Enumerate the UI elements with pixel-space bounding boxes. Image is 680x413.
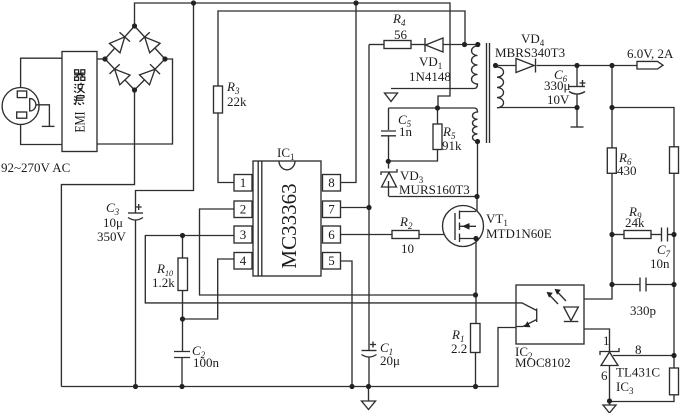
svg-text:350V: 350V bbox=[97, 229, 127, 244]
svg-text:24k: 24k bbox=[625, 215, 645, 230]
svg-text:4: 4 bbox=[240, 253, 247, 268]
svg-text:6.0V, 2A: 6.0V, 2A bbox=[627, 46, 674, 61]
svg-text:MTD1N60E: MTD1N60E bbox=[486, 226, 552, 241]
svg-text:3: 3 bbox=[240, 227, 247, 242]
svg-text:IC3: IC3 bbox=[616, 379, 634, 396]
svg-text:R4: R4 bbox=[392, 11, 406, 28]
svg-text:EMI: EMI bbox=[73, 112, 89, 133]
svg-text:100n: 100n bbox=[193, 355, 220, 370]
svg-text:7: 7 bbox=[328, 202, 335, 217]
svg-text:IC1: IC1 bbox=[277, 145, 295, 162]
svg-text:MOC8102: MOC8102 bbox=[515, 355, 571, 370]
svg-text:8: 8 bbox=[328, 175, 335, 190]
svg-text:330p: 330p bbox=[630, 303, 656, 318]
svg-text:MBRS340T3: MBRS340T3 bbox=[495, 45, 565, 60]
svg-text:1: 1 bbox=[603, 333, 610, 348]
svg-text:91k: 91k bbox=[442, 138, 462, 153]
svg-text:1n: 1n bbox=[399, 124, 413, 139]
svg-text:8: 8 bbox=[635, 342, 642, 357]
svg-text:430: 430 bbox=[617, 163, 637, 178]
svg-text:5: 5 bbox=[328, 253, 335, 268]
svg-text:10μ: 10μ bbox=[103, 215, 123, 230]
svg-text:1: 1 bbox=[240, 175, 247, 190]
svg-text:330μ: 330μ bbox=[544, 78, 571, 93]
svg-text:1N4148: 1N4148 bbox=[409, 69, 451, 84]
svg-text:10n: 10n bbox=[650, 256, 670, 271]
svg-text:6: 6 bbox=[601, 368, 608, 383]
svg-text:92~270V AC: 92~270V AC bbox=[1, 160, 70, 175]
svg-text:R2: R2 bbox=[399, 214, 413, 231]
svg-text:56: 56 bbox=[394, 27, 408, 42]
svg-text:20μ: 20μ bbox=[380, 353, 400, 368]
svg-text:2: 2 bbox=[240, 202, 247, 217]
svg-text:10: 10 bbox=[401, 241, 414, 256]
svg-text:6: 6 bbox=[328, 227, 335, 242]
svg-text:22k: 22k bbox=[227, 94, 247, 109]
svg-text:1.2k: 1.2k bbox=[152, 275, 175, 290]
svg-text:MURS160T3: MURS160T3 bbox=[399, 182, 470, 197]
svg-text:10V: 10V bbox=[547, 92, 570, 107]
svg-text:2.2: 2.2 bbox=[451, 341, 467, 356]
svg-text:MC33363: MC33363 bbox=[277, 183, 301, 268]
svg-text:TL431C: TL431C bbox=[616, 365, 660, 380]
